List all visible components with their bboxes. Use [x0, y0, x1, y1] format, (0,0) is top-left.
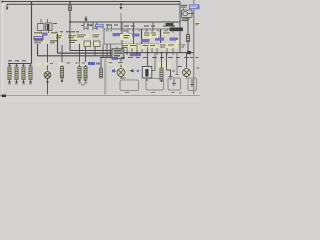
wire L2	[70, 22, 112, 51]
label strip above fuses	[8, 60, 32, 65]
bus connector box	[112, 47, 124, 59]
terminal text row under main wire	[121, 56, 199, 59]
wire horizontal upper	[70, 21, 180, 23]
component box with bar	[147, 53, 149, 68]
fuse on vertical wire	[68, 6, 71, 11]
stubs up from main	[122, 44, 173, 53]
wire long vertical to fuse rail	[31, 2, 33, 64]
wire L1	[38, 44, 113, 56]
wire vertical mid faint	[120, 13, 122, 29]
fuse S3	[22, 67, 25, 80]
heater single	[99, 68, 102, 78]
purple label left (selected component)	[34, 36, 44, 40]
purple labels inside control box	[113, 33, 179, 56]
wire vertical with fuse	[69, 2, 71, 23]
bus 30 (top rail)	[2, 1, 180, 4]
gray band (mechanical link)	[104, 59, 106, 96]
selected link highlight	[189, 4, 200, 9]
tiny captions below boxes	[125, 92, 182, 93]
bus 15 (second rail)	[7, 3, 180, 5]
wire right horizontal main	[124, 52, 194, 54]
node on bus30	[69, 1, 71, 3]
box G bottom edge	[104, 43, 180, 45]
small blue label right of band	[112, 70, 118, 73]
fuse S2	[15, 67, 18, 80]
relay top right	[182, 8, 194, 19]
relay caption	[182, 19, 190, 22]
lamp K (circle with cross)	[47, 44, 49, 72]
pin wires from box G to bus grid	[103, 44, 111, 57]
corner mark	[2, 95, 7, 98]
wire stub component small top	[85, 16, 87, 22]
fuse right	[186, 35, 189, 42]
pin stubs above box top	[103, 24, 112, 29]
component boxes mid	[76, 34, 102, 48]
ground detail box 2	[146, 79, 164, 91]
ground detail box 1	[120, 78, 139, 91]
left edge shading	[0, 0, 1, 95]
wire thin x177	[176, 53, 179, 75]
window bottom border	[0, 94, 200, 96]
fuse bottom stubs and terminals	[10, 80, 31, 82]
ground detail box 4	[188, 78, 197, 91]
wire right vertical 2 with fuse	[187, 18, 189, 53]
node on bus15 mid	[120, 3, 122, 5]
yellow wire labels mid right	[120, 32, 180, 50]
blue label M	[88, 62, 95, 65]
fuse rail bottom left	[8, 63, 32, 65]
text row labels under wire E	[87, 25, 175, 27]
fuse right-bottom	[158, 62, 171, 71]
wire arrow mid	[120, 4, 122, 7]
ground detail box 3	[168, 78, 181, 90]
pin number specks under box top	[106, 29, 178, 32]
heater pair elements	[75, 62, 80, 65]
wire L3	[58, 34, 113, 53]
switch boxes upper left row	[38, 19, 53, 33]
blue link J-unit	[95, 24, 104, 27]
fuse S1	[8, 67, 11, 80]
ground branch	[167, 53, 171, 76]
lamp right (circle with cross)	[186, 53, 188, 69]
wire arrow left	[6, 4, 8, 8]
connector pins below wire	[84, 22, 97, 30]
heater element mid-left	[61, 45, 63, 67]
control unit box J top edge	[104, 29, 180, 44]
diagram frame right	[193, 0, 195, 95]
wire right vertical	[179, 2, 181, 53]
yellow label right	[195, 22, 200, 27]
dark connector blocks right	[166, 23, 174, 26]
node on bus15	[30, 3, 32, 5]
bus line 4 short	[100, 57, 112, 59]
left component column labels	[53, 23, 79, 32]
arrow left small	[130, 69, 134, 72]
fuse S4	[29, 67, 32, 80]
motor (circle hatched)	[120, 59, 122, 69]
junction nodes	[126, 52, 128, 54]
blue arrow	[136, 70, 140, 73]
wire vertical through bus to heater pair	[79, 44, 81, 67]
label text top right	[181, 5, 188, 8]
